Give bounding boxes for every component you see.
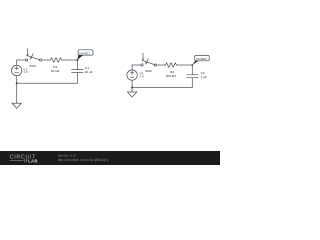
capacitor C1 [72, 70, 84, 73]
svg-text:NODE1: NODE1 [79, 51, 90, 55]
voltage source V2 [127, 70, 137, 80]
CircuitLab watermark bar [0, 151, 220, 165]
ground symbol right [127, 92, 136, 97]
wire node to C2 [191, 65, 193, 75]
bottom rail wire left circuit [17, 82, 78, 84]
resistor R1 [51, 58, 62, 62]
label C2 value [201, 71, 207, 79]
junction dot node 1 [76, 59, 78, 61]
svg-text:50 kΩ: 50 kΩ [51, 69, 60, 73]
wire from V2 top to SW2 [132, 65, 141, 70]
label SW1 [29, 64, 36, 68]
wire R2 to node corner [177, 64, 193, 66]
wire node to C1 [76, 60, 78, 70]
voltage source V1 [12, 65, 22, 75]
wire SW2 to R2 [156, 64, 165, 66]
junction dot rail 1 [16, 82, 18, 84]
switch SW2 [141, 53, 157, 66]
ground wire stem [16, 83, 18, 103]
svg-text:10 µF: 10 µF [85, 70, 93, 74]
junction dot node 2 [191, 64, 193, 66]
label C1 value [85, 66, 93, 74]
svg-text:SW2: SW2 [145, 69, 152, 73]
ground wire stem right [131, 88, 133, 93]
label V2 value [139, 72, 145, 79]
wire R1 to node [62, 59, 78, 61]
wire SW1 to R1 [42, 59, 51, 61]
wire C2 to rail [191, 78, 193, 88]
ground symbol left [12, 103, 21, 108]
junction dot rail 2 [131, 87, 133, 89]
svg-text:1 µF: 1 µF [201, 75, 207, 79]
CircuitLab logo [10, 154, 38, 163]
node flag NODE2 [193, 55, 210, 64]
svg-text:NODE2: NODE2 [196, 57, 207, 61]
label R1 value [51, 65, 60, 73]
watermark credit text [58, 153, 109, 162]
wire C1 to rail [76, 73, 78, 84]
wire V2 bottom [131, 80, 133, 87]
svg-text:http://circuitlab.com/c/2jcq88: http://circuitlab.com/c/2jcq88u6g7y [58, 158, 109, 162]
capacitor C2 [187, 75, 199, 78]
switch SW1 [26, 49, 42, 61]
label V1 value [23, 67, 29, 74]
label SW2 [145, 69, 152, 73]
label R2 value [166, 70, 177, 78]
svg-text:LAB: LAB [28, 158, 38, 163]
svg-text:500 kΩ: 500 kΩ [166, 74, 177, 78]
wire V1 bottom [16, 76, 18, 84]
bottom rail wire right circuit [132, 87, 192, 89]
node flag NODE1 [77, 50, 93, 60]
wire from V1 top to SW1 [17, 60, 26, 65]
svg-text:kelsmien / 6.25: kelsmien / 6.25 [58, 153, 77, 157]
resistor R2 [166, 63, 177, 67]
svg-text:SW1: SW1 [29, 64, 36, 68]
